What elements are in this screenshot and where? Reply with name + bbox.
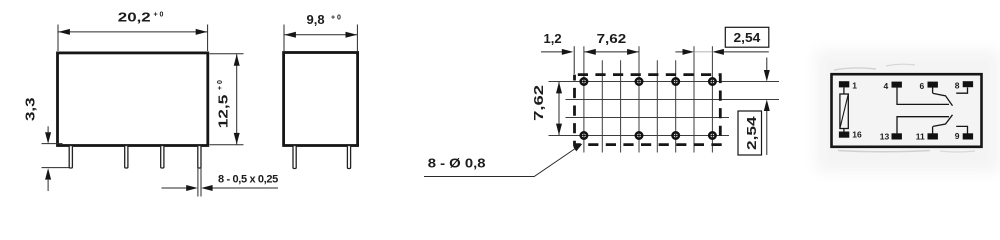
dimension 20,2 arrow left: [58, 29, 70, 35]
hole H2: [636, 78, 642, 84]
schematic pad pin 11: [928, 133, 938, 139]
dimension 2,54 top box: [725, 27, 769, 47]
schematic scan smudge top: [834, 68, 876, 70]
contact A common wire from pin 4: [897, 87, 949, 104]
dimension 7,62 top arrows: [584, 49, 596, 55]
dimension 20,2 extension lines: [58, 25, 208, 52]
side view pin P5: [293, 146, 296, 169]
schematic pad pin 13: [892, 133, 902, 139]
dimension 9,8 arrow left: [284, 32, 296, 38]
schematic pad pin 16: [839, 132, 849, 138]
dimension 12,5 extension lines: [210, 54, 244, 145]
pcb layout grid vertical lines: [584, 46, 713, 152]
hole spec leader arrow: [573, 144, 583, 152]
front view pin P1: [69, 146, 72, 169]
svg-text:11: 11: [916, 131, 925, 141]
dimension 3,3 extension lines: [42, 144, 70, 168]
contact A movable blade: [933, 93, 953, 105]
contact A NC stub pin 6: [932, 87, 934, 93]
hole H3: [673, 78, 679, 84]
hole H5: [581, 132, 587, 138]
front view pin P4: [198, 146, 201, 169]
svg-text:8: 8: [955, 81, 960, 91]
svg-text:1,2: 1,2: [544, 31, 562, 46]
contact B NC stub pin 11: [932, 126, 934, 133]
dimension 9,8 line: [284, 34, 357, 36]
hole H6: [636, 132, 642, 138]
svg-text:3,3: 3,3: [23, 98, 38, 121]
hole H8: [709, 132, 715, 138]
dimension 12,5 line: [236, 54, 238, 144]
dimension 20,2 line: [58, 31, 207, 33]
dimension 2,54 top arrows: [675, 51, 683, 53]
pcb left edge extension line: [573, 46, 575, 74]
svg-text:4: 4: [884, 81, 889, 91]
dimension 20,2 arrow right: [196, 29, 208, 35]
svg-text:9: 9: [955, 131, 960, 141]
svg-text:7,62: 7,62: [597, 31, 627, 46]
contact B NO stub pin 9: [956, 126, 967, 133]
hole H7: [673, 132, 679, 138]
dimension 7,62 top line: [584, 51, 638, 53]
dimension 7,62 left line: [558, 82, 560, 135]
svg-text:8 - 0,5 x 0,25: 8 - 0,5 x 0,25: [218, 174, 278, 186]
side view pin P6: [347, 146, 350, 169]
dimension 7,62 left arrows: [556, 82, 562, 94]
pcb dashed outline: [575, 75, 721, 145]
svg-text:8 - Ø 0,8: 8 - Ø 0,8: [428, 156, 486, 170]
front view body: [58, 53, 208, 146]
svg-text:7,62: 7,62: [533, 85, 547, 121]
svg-text:9,8: 9,8: [307, 12, 325, 27]
svg-text:20,2: 20,2: [118, 10, 151, 25]
svg-text:2,54: 2,54: [734, 30, 761, 45]
svg-text:6: 6: [920, 81, 925, 91]
hole spec leader line: [424, 147, 578, 177]
dimension 2,54 right box: [738, 111, 762, 155]
schematic pad pin 8: [963, 81, 973, 87]
schematic pad pin 4: [892, 82, 902, 88]
dimension 12,5 arrow bottom: [234, 133, 240, 145]
svg-text:16: 16: [852, 130, 862, 140]
front view pin P2: [125, 146, 128, 169]
contact A NO stub pin 8: [956, 87, 967, 93]
front view pin P3: [161, 146, 164, 169]
schematic pad pin 1: [839, 81, 849, 87]
pin detail extension lines: [198, 168, 201, 197]
hole H1: [581, 78, 587, 84]
svg-text:12,5: 12,5: [216, 94, 230, 128]
dimension 9,8 arrow right: [346, 32, 358, 38]
contact B common wire from pin 13: [897, 117, 949, 134]
side view body: [284, 53, 358, 146]
hole H4: [709, 78, 715, 84]
dimension 12,5 arrow top: [234, 54, 240, 65]
svg-text:13: 13: [880, 131, 890, 141]
svg-text:1: 1: [852, 81, 857, 91]
svg-text:2,54: 2,54: [745, 116, 759, 150]
dimension 9,8 extension lines: [284, 25, 357, 52]
relay schematic outer box: [832, 74, 982, 147]
contact B movable blade: [933, 115, 953, 127]
schematic pad pin 9: [963, 133, 973, 139]
pin detail dimension arrows: [162, 187, 187, 189]
svg-text:+ 0: + 0: [217, 80, 224, 90]
dimension 2,54 right arrows: [766, 58, 768, 71]
dimension 3,3 arrow bottom: [47, 180, 49, 191]
dimension 1,2 arrow: [541, 51, 562, 53]
pcb layout grid horizontal lines: [549, 82, 780, 136]
svg-text:+ 0: + 0: [331, 15, 341, 22]
schematic pad pin 6: [928, 82, 938, 88]
schematic scan smudge bottom: [838, 151, 930, 152]
coil K1: [840, 87, 848, 131]
dimension 3,3 arrow top: [47, 126, 49, 132]
svg-text:+ 0: + 0: [154, 12, 164, 19]
